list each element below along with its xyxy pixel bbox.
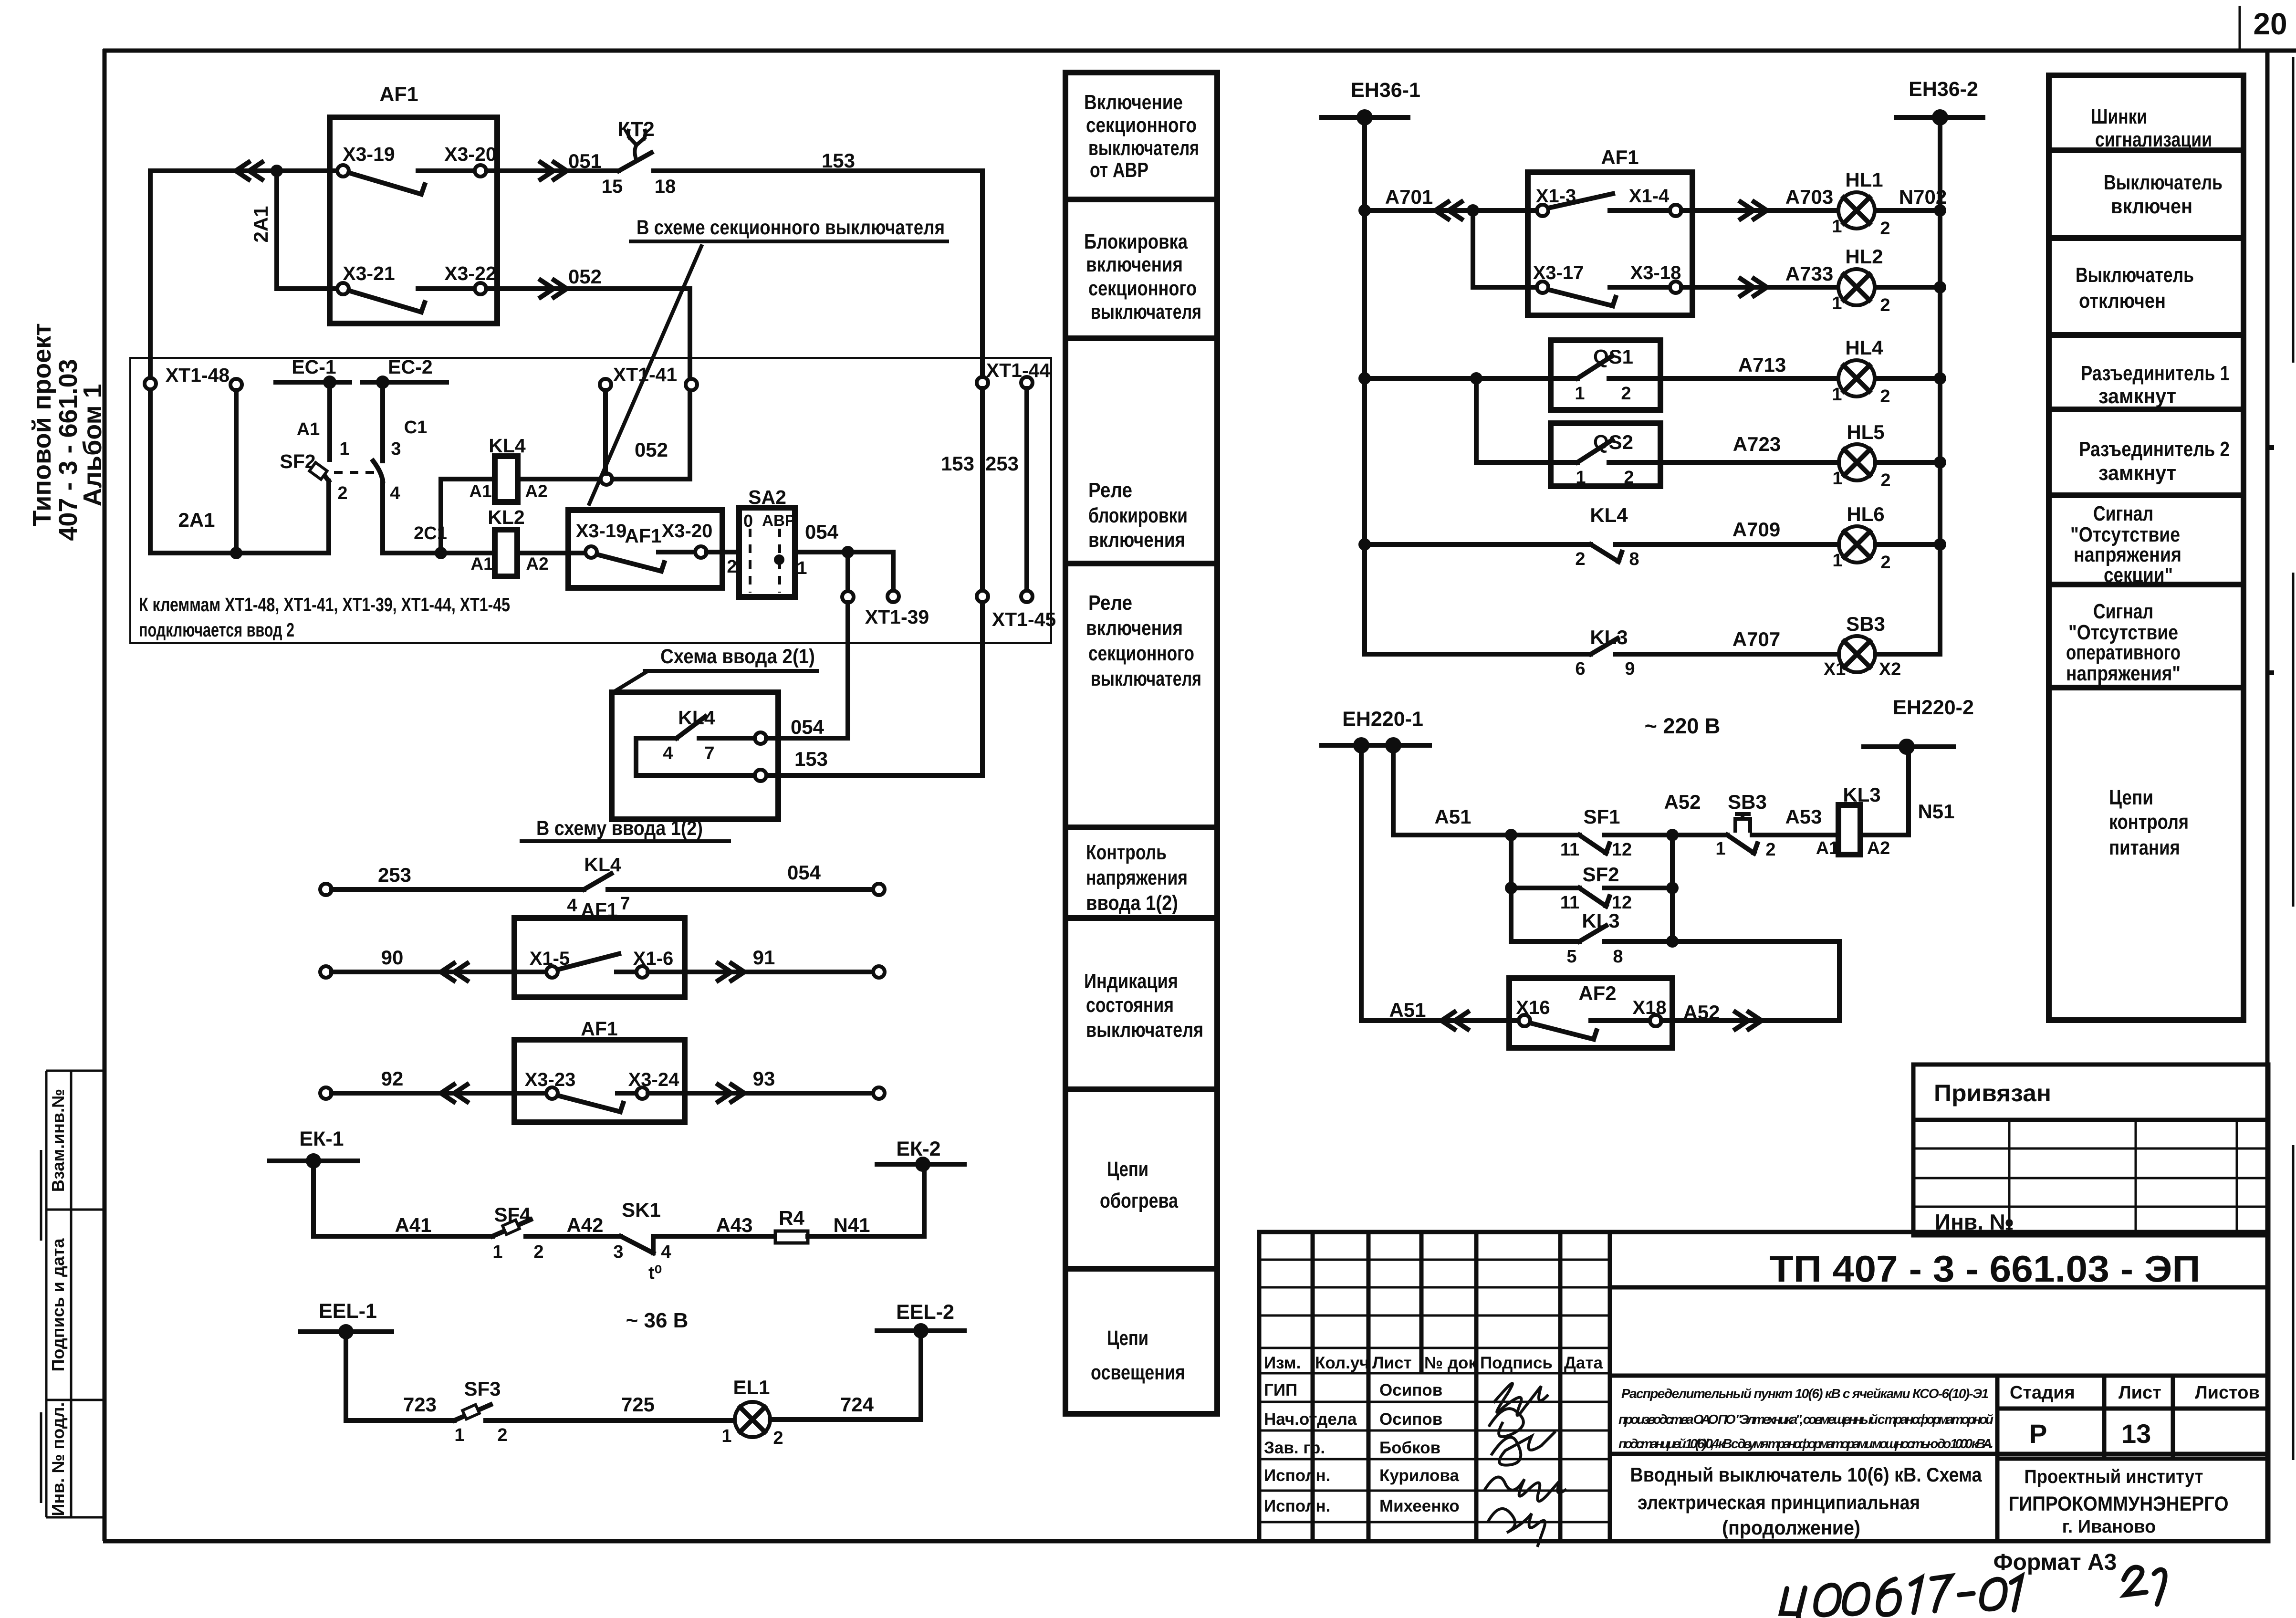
svg-text:А52: А52 [1683, 1001, 1720, 1023]
svg-text:В схеме секционного выключател: В схеме секционного выключателя [637, 216, 945, 239]
svg-text:Х1-4: Х1-4 [1629, 186, 1670, 207]
svg-text:ХТ1-48: ХТ1-48 [166, 364, 230, 386]
svg-text:А703: А703 [1785, 186, 1833, 208]
svg-text:052: 052 [568, 265, 602, 288]
svg-text:ЕК-2: ЕК-2 [896, 1138, 940, 1160]
svg-text:SK1: SK1 [622, 1199, 661, 1221]
svg-text:напряжения": напряжения" [2066, 662, 2181, 685]
svg-text:SA2: SA2 [748, 486, 786, 508]
svg-text:Подпись: Подпись [1480, 1354, 1553, 1372]
svg-text:052: 052 [635, 438, 668, 461]
svg-text:12: 12 [1612, 840, 1632, 860]
svg-text:А733: А733 [1785, 262, 1833, 285]
svg-text:Сигнал: Сигнал [2093, 600, 2153, 623]
svg-text:Включение: Включение [1084, 91, 1183, 114]
svg-text:1: 1 [721, 1426, 731, 1446]
svg-text:3: 3 [391, 439, 401, 459]
svg-text:AF1: AF1 [581, 1018, 617, 1040]
svg-text:20: 20 [2253, 7, 2287, 41]
svg-text:253: 253 [985, 452, 1019, 475]
svg-text:А713: А713 [1738, 354, 1786, 376]
svg-text:питания: питания [2109, 836, 2180, 859]
svg-text:ЕН220-1: ЕН220-1 [1342, 708, 1423, 731]
svg-text:Контроль: Контроль [1086, 841, 1167, 864]
svg-text:сигнализации: сигнализации [2095, 128, 2212, 151]
svg-text:контроля: контроля [2109, 810, 2189, 834]
svg-text:R4: R4 [779, 1207, 804, 1229]
svg-text:А43: А43 [716, 1214, 752, 1236]
svg-text:ЕС-2: ЕС-2 [388, 356, 432, 378]
svg-text:AF2: AF2 [1578, 982, 1616, 1004]
svg-text:Дата: Дата [1564, 1354, 1603, 1372]
svg-text:HL1: HL1 [1845, 168, 1883, 191]
svg-text:(продолжение): (продолжение) [1722, 1516, 1860, 1539]
svg-text:1: 1 [1575, 384, 1585, 404]
svg-text:А53: А53 [1785, 805, 1822, 828]
svg-text:Исполн.: Исполн. [1264, 1497, 1330, 1515]
svg-text:13: 13 [2121, 1419, 2151, 1449]
svg-text:Стадия: Стадия [2010, 1383, 2075, 1403]
svg-text:7: 7 [704, 743, 714, 763]
svg-text:92: 92 [381, 1067, 404, 1090]
svg-text:Лист: Лист [2119, 1383, 2161, 1403]
svg-text:А707: А707 [1732, 628, 1780, 650]
svg-text:4: 4 [390, 483, 400, 503]
svg-text:2: 2 [727, 557, 737, 577]
svg-text:725: 725 [621, 1393, 655, 1416]
svg-text:Сигнал: Сигнал [2093, 502, 2153, 525]
svg-text:4: 4 [567, 896, 577, 916]
svg-text:EL1: EL1 [733, 1376, 770, 1399]
svg-text:~ 36 В: ~ 36 В [626, 1309, 689, 1332]
svg-text:2: 2 [1880, 219, 1890, 239]
svg-text:7: 7 [620, 894, 630, 914]
svg-text:KL4: KL4 [489, 435, 526, 457]
svg-text:включения: включения [1088, 528, 1185, 552]
svg-text:А709: А709 [1732, 518, 1780, 541]
svg-text:KL4: KL4 [584, 854, 621, 876]
svg-text:1: 1 [339, 439, 349, 459]
svg-text:AF1: AF1 [625, 525, 661, 547]
svg-text:1: 1 [1832, 217, 1842, 237]
svg-text:15: 15 [602, 176, 623, 197]
svg-text:Изм.: Изм. [1264, 1354, 1301, 1372]
svg-text:~ 220 В: ~ 220 В [1645, 714, 1721, 738]
svg-text:4: 4 [663, 743, 673, 763]
svg-text:051: 051 [568, 150, 602, 172]
svg-text:Х3-19: Х3-19 [576, 521, 627, 542]
svg-text:Х3-20: Х3-20 [444, 143, 496, 165]
svg-text:2: 2 [497, 1425, 507, 1445]
svg-text:Листов: Листов [2195, 1383, 2260, 1403]
svg-text:HL4: HL4 [1845, 336, 1883, 359]
svg-text:выключателя: выключателя [1091, 300, 1201, 324]
svg-text:ХТ1-41: ХТ1-41 [613, 364, 677, 386]
svg-text:выключателя: выключателя [1091, 667, 1201, 690]
svg-text:замкнут: замкнут [2098, 461, 2176, 485]
svg-text:А1: А1 [470, 554, 493, 574]
svg-text:Цепи: Цепи [2109, 786, 2153, 809]
svg-text:от АВР: от АВР [1090, 158, 1148, 182]
svg-text:Привязан: Привязан [1934, 1080, 2051, 1107]
svg-text:SВ3: SВ3 [1846, 613, 1885, 635]
svg-text:выключателя: выключателя [1088, 136, 1199, 160]
svg-text:А52: А52 [1664, 791, 1701, 813]
svg-text:Зав. гр.: Зав. гр. [1264, 1439, 1325, 1457]
svg-text:253: 253 [378, 864, 411, 886]
svg-text:EEL-1: EEL-1 [319, 1300, 377, 1323]
svg-text:А701: А701 [1385, 186, 1433, 208]
svg-text:91: 91 [753, 946, 775, 969]
svg-text:А2: А2 [526, 554, 548, 574]
svg-text:подстанцией 10(6)/0,4 кВ с дву: подстанцией 10(6)/0,4 кВ с двумя трансфо… [1618, 1436, 1993, 1451]
svg-text:723: 723 [403, 1393, 437, 1416]
svg-text:состояния: состояния [1086, 993, 1174, 1017]
svg-text:Бобков: Бобков [1379, 1439, 1440, 1457]
svg-text:5: 5 [1566, 947, 1576, 967]
svg-text:К клеммам ХТ1-48, ХТ1-41, ХТ1-: К клеммам ХТ1-48, ХТ1-41, ХТ1-39, ХТ1-44… [139, 594, 510, 616]
svg-text:9: 9 [1625, 659, 1635, 679]
svg-text:ЕН36-2: ЕН36-2 [1909, 78, 1978, 101]
svg-text:153: 153 [941, 452, 974, 475]
svg-text:SВ3: SВ3 [1728, 791, 1767, 813]
svg-text:подключается ввод 2: подключается ввод 2 [139, 619, 294, 641]
svg-text:№ док: № док [1424, 1354, 1477, 1372]
svg-text:АВР: АВР [762, 511, 795, 529]
svg-text:N41: N41 [833, 1214, 870, 1236]
svg-text:ЕН220-2: ЕН220-2 [1893, 696, 1974, 719]
svg-text:Лист: Лист [1372, 1354, 1412, 1372]
svg-text:ГИП: ГИП [1264, 1381, 1297, 1399]
svg-text:Типовой проект: Типовой проект [28, 323, 56, 526]
svg-text:Х1: Х1 [1824, 659, 1846, 679]
svg-text:HL6: HL6 [1847, 503, 1884, 525]
svg-text:А42: А42 [566, 1214, 603, 1236]
svg-text:054: 054 [791, 716, 824, 738]
svg-text:А51: А51 [1389, 999, 1426, 1021]
svg-text:оперативного: оперативного [2066, 641, 2181, 664]
svg-text:AF1: AF1 [379, 83, 418, 106]
svg-text:11: 11 [1560, 893, 1579, 913]
svg-text:2А1: 2А1 [178, 509, 215, 531]
svg-text:Схема ввода 2(1): Схема ввода 2(1) [660, 645, 815, 668]
svg-text:18: 18 [655, 176, 676, 197]
svg-text:Шинки: Шинки [2091, 105, 2147, 128]
svg-text:Х3-21: Х3-21 [343, 262, 395, 284]
svg-text:t⁰: t⁰ [648, 1263, 662, 1283]
svg-text:6: 6 [1575, 659, 1585, 679]
svg-text:SF1: SF1 [1583, 805, 1620, 828]
svg-text:0: 0 [743, 511, 753, 531]
svg-text:Индикация: Индикация [1084, 970, 1178, 993]
svg-text:включен: включен [2111, 195, 2192, 218]
svg-text:А2: А2 [525, 481, 547, 501]
svg-text:2: 2 [1880, 295, 1890, 315]
svg-text:2: 2 [533, 1242, 543, 1262]
svg-text:ЕН36-1: ЕН36-1 [1351, 79, 1420, 102]
svg-text:1: 1 [797, 558, 807, 578]
svg-text:Вводный выключатель 10(6) кВ.: Вводный выключатель 10(6) кВ. Схема [1630, 1463, 1983, 1486]
svg-text:Блокировка: Блокировка [1084, 230, 1188, 253]
svg-text:2А1: 2А1 [250, 206, 272, 242]
svg-text:освещения: освещения [1091, 1361, 1185, 1384]
svg-text:HL5: HL5 [1847, 421, 1884, 443]
svg-text:Х3-24: Х3-24 [628, 1069, 679, 1090]
svg-text:93: 93 [753, 1067, 775, 1090]
svg-text:2: 2 [1880, 553, 1890, 573]
svg-text:секционного: секционного [1088, 277, 1197, 300]
svg-text:054: 054 [787, 861, 821, 884]
svg-text:Подпись и дата: Подпись и дата [48, 1238, 68, 1372]
svg-text:ЕС-1: ЕС-1 [292, 356, 336, 378]
svg-text:1: 1 [454, 1425, 464, 1445]
svg-text:SF2: SF2 [1582, 863, 1619, 886]
svg-text:1: 1 [1832, 551, 1842, 571]
svg-text:А1: А1 [469, 481, 491, 501]
svg-text:1: 1 [1576, 468, 1586, 488]
svg-text:ХТ1-44: ХТ1-44 [986, 359, 1051, 381]
svg-text:замкнут: замкнут [2098, 385, 2176, 408]
svg-text:Инв. № подл.: Инв. № подл. [48, 1402, 68, 1516]
svg-text:Реле: Реле [1088, 591, 1132, 615]
svg-text:блокировки: блокировки [1088, 504, 1188, 527]
svg-text:ХТ1-39: ХТ1-39 [865, 606, 929, 628]
svg-text:2: 2 [773, 1428, 783, 1448]
svg-text:KL2: KL2 [488, 506, 524, 528]
svg-text:8: 8 [1629, 549, 1639, 569]
svg-text:N51: N51 [1918, 800, 1954, 823]
svg-text:1: 1 [492, 1242, 502, 1262]
svg-text:ТП 407 - 3 - 661.03 - ЭП: ТП 407 - 3 - 661.03 - ЭП [1770, 1248, 2201, 1290]
svg-text:Распределительный пункт 10(6): Распределительный пункт 10(6) кВ с ячейк… [1621, 1386, 1989, 1401]
svg-text:HL2: HL2 [1845, 245, 1883, 268]
svg-text:Кол.уч: Кол.уч [1315, 1354, 1369, 1372]
svg-text:производства ОАО ПО "Элтехника: производства ОАО ПО "Элтехника", совмеще… [1618, 1412, 1993, 1427]
svg-text:Х3-20: Х3-20 [662, 521, 713, 542]
svg-text:3: 3 [613, 1242, 623, 1262]
svg-text:Альбом 1: Альбом 1 [78, 384, 107, 506]
svg-text:ввода 1(2): ввода 1(2) [1086, 891, 1178, 915]
svg-text:ЕК-1: ЕК-1 [299, 1127, 344, 1150]
svg-text:А1: А1 [297, 419, 320, 439]
svg-text:2: 2 [1621, 384, 1631, 404]
svg-text:2: 2 [1880, 386, 1890, 407]
svg-text:А51: А51 [1434, 805, 1471, 828]
svg-text:Взам.инв.№: Взам.инв.№ [48, 1089, 68, 1192]
svg-text:включения: включения [1086, 616, 1183, 640]
svg-text:Осипов: Осипов [1379, 1410, 1442, 1429]
svg-text:электрическая принципиальная: электрическая принципиальная [1638, 1491, 1920, 1514]
svg-text:Х18: Х18 [1632, 997, 1666, 1018]
svg-text:А41: А41 [395, 1214, 431, 1236]
svg-text:Выключатель: Выключатель [2076, 263, 2194, 287]
svg-text:выключателя: выключателя [1086, 1018, 1203, 1042]
svg-text:1: 1 [1832, 385, 1842, 405]
svg-text:Михеенко: Михеенко [1379, 1497, 1460, 1515]
svg-text:Разъединитель 1: Разъединитель 1 [2081, 362, 2230, 385]
svg-text:КТ2: КТ2 [617, 118, 655, 141]
svg-text:Х3-22: Х3-22 [444, 262, 496, 284]
svg-text:г. Иваново: г. Иваново [2062, 1517, 2156, 1537]
svg-text:Формат А3: Формат А3 [1993, 1550, 2117, 1575]
svg-text:AF1: AF1 [1601, 146, 1639, 168]
svg-text:724: 724 [840, 1393, 874, 1416]
svg-text:Реле: Реле [1088, 479, 1132, 502]
svg-text:11: 11 [1560, 840, 1579, 860]
svg-text:90: 90 [381, 946, 404, 969]
svg-text:2: 2 [1575, 549, 1585, 569]
svg-text:153: 153 [794, 748, 828, 770]
svg-text:Цепи: Цепи [1107, 1326, 1148, 1350]
svg-text:054: 054 [805, 521, 839, 543]
svg-text:отключен: отключен [2079, 289, 2166, 313]
svg-text:1: 1 [1832, 293, 1842, 313]
svg-text:1: 1 [1832, 469, 1842, 489]
svg-text:ГИПРОКОММУНЭНЕРГО: ГИПРОКОММУНЭНЕРГО [2009, 1493, 2229, 1515]
svg-text:4: 4 [661, 1242, 671, 1262]
svg-text:SF3: SF3 [464, 1378, 501, 1400]
svg-text:Нач.отдела: Нач.отдела [1264, 1410, 1357, 1429]
svg-text:KL4: KL4 [1590, 504, 1628, 526]
svg-text:В схему ввода 1(2): В схему ввода 1(2) [536, 817, 703, 840]
svg-text:Х2: Х2 [1879, 659, 1901, 679]
svg-text:EEL-2: EEL-2 [896, 1301, 954, 1324]
svg-text:включения: включения [1086, 253, 1183, 276]
svg-text:секционного: секционного [1088, 642, 1194, 665]
svg-text:Осипов: Осипов [1379, 1381, 1442, 1399]
svg-text:2: 2 [1624, 468, 1634, 488]
svg-text:Выключатель: Выключатель [2104, 171, 2223, 194]
svg-text:напряжения: напряжения [2074, 543, 2181, 566]
svg-text:AF1: AF1 [581, 899, 617, 921]
svg-text:Курилова: Курилова [1379, 1466, 1459, 1485]
svg-text:Х3-19: Х3-19 [343, 143, 395, 165]
svg-text:2: 2 [1880, 470, 1890, 491]
svg-text:А723: А723 [1733, 433, 1781, 455]
svg-text:8: 8 [1613, 947, 1623, 967]
svg-text:С1: С1 [404, 418, 428, 438]
svg-text:А2: А2 [1867, 838, 1890, 858]
svg-text:секции": секции" [2104, 564, 2173, 587]
svg-text:ХТ1-45: ХТ1-45 [992, 608, 1056, 630]
svg-text:напряжения: напряжения [1086, 866, 1188, 889]
svg-text:Проектный институт: Проектный институт [2025, 1466, 2203, 1487]
svg-text:А1: А1 [1816, 838, 1839, 858]
svg-text:Исполн.: Исполн. [1264, 1466, 1330, 1485]
svg-text:Р: Р [2029, 1419, 2047, 1449]
svg-text:обогрева: обогрева [1100, 1189, 1178, 1212]
svg-text:153: 153 [822, 149, 855, 172]
svg-text:Разъединитель 2: Разъединитель 2 [2079, 438, 2230, 461]
svg-text:1: 1 [1715, 839, 1725, 859]
svg-text:секционного: секционного [1086, 114, 1197, 137]
svg-text:Цепи: Цепи [1107, 1158, 1148, 1181]
svg-text:2: 2 [337, 483, 347, 503]
svg-text:2: 2 [1765, 840, 1775, 860]
